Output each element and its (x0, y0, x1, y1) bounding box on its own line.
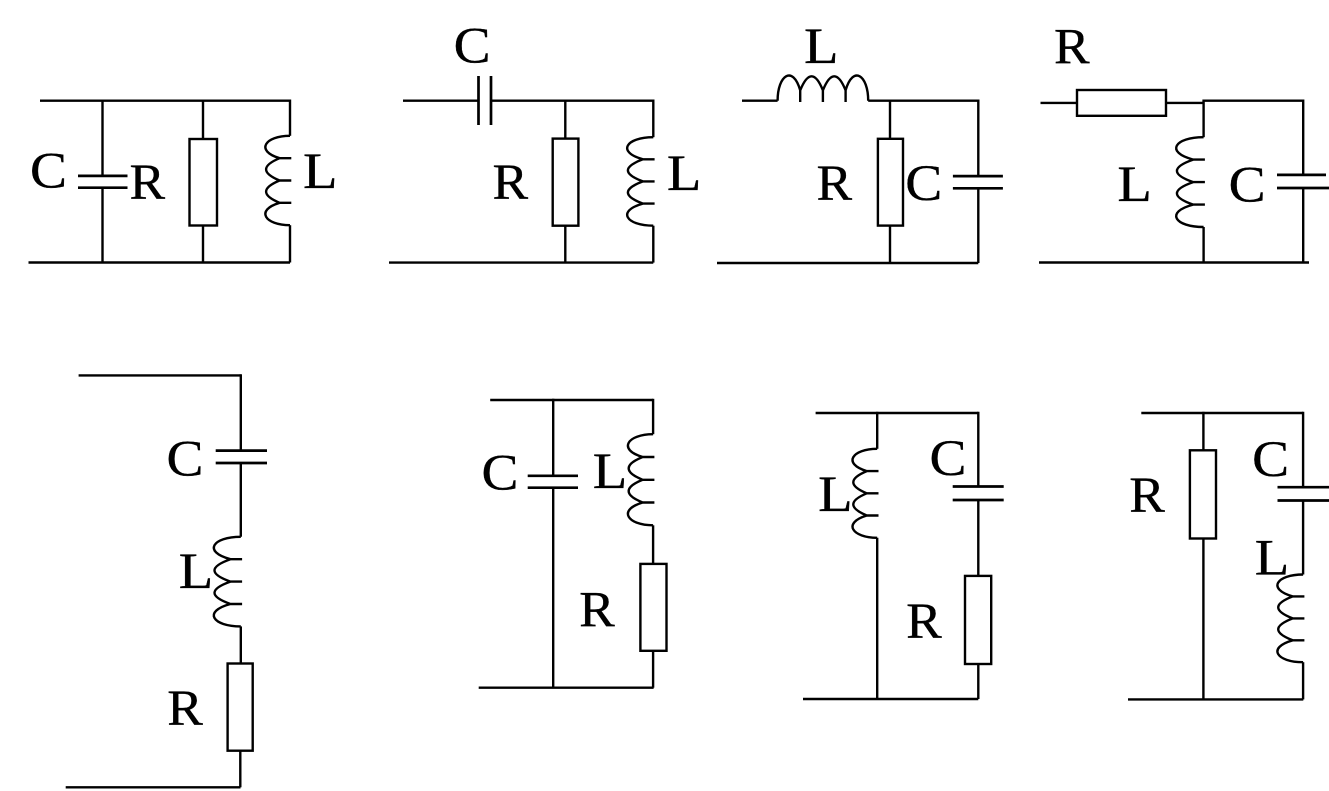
svg-text:C: C (1252, 432, 1289, 488)
svg-text:L: L (818, 467, 853, 523)
resistor R (circuit 2) body (553, 139, 579, 226)
wire: circuit-2 resistor branch lower lead (564, 226, 566, 263)
wire: circuit-6 lead between L and R (652, 525, 654, 565)
wire: circuit-8 bottom rail (1128, 698, 1303, 700)
resistor R (circuit 8) body (1190, 450, 1216, 538)
wire: circuit-2 inductor branch lower lead (652, 226, 654, 263)
wire: circuit-5 upper vertical lead (240, 374, 242, 450)
wire: circuit-6 bottom rail (479, 687, 654, 689)
svg-text:C: C (454, 19, 491, 75)
inductor L (circuit 7) coil (853, 449, 879, 538)
svg-text:R: R (1054, 20, 1090, 76)
wire: circuit-3 resistor branch upper lead (889, 101, 891, 140)
wire: circuit-8 lead between C and L (1302, 501, 1304, 575)
svg-text:L: L (667, 146, 702, 202)
capacitor C (circuit 8) plates (1278, 486, 1329, 489)
wire: circuit-4 inductor branch upper lead (1202, 101, 1204, 138)
resistor R (circuit 6) body (640, 564, 666, 651)
svg-text:L: L (303, 144, 338, 200)
wire: circuit-1 resistor branch upper lead (202, 101, 204, 140)
wire: circuit-8 capacitor branch upper lead (1302, 412, 1304, 487)
wire: circuit-4 left lead (1041, 102, 1079, 104)
wire: circuit-3 top rail (868, 99, 978, 101)
resistor R (circuit 7) body (965, 576, 991, 664)
wire: circuit-7 top rail (816, 412, 979, 414)
resistor R (circuit 1) body (190, 139, 218, 226)
wire: circuit-3 capacitor branch lower lead (977, 188, 979, 263)
svg-text:R: R (1129, 468, 1165, 524)
resistor R (circuit 5) body (228, 664, 253, 751)
wire: circuit-6 capacitor branch lower lead (552, 488, 554, 688)
wire: circuit-8 lower lead (1302, 662, 1304, 699)
wire: circuit-6 right branch upper lead (652, 399, 654, 434)
capacitor C (circuit 5) plates (216, 449, 267, 452)
wire: circuit-1 capacitor branch lower lead (101, 188, 103, 263)
wire: circuit-8 resistor branch lower lead (1202, 539, 1204, 700)
wire: circuit-7 lead between C and R (977, 500, 979, 577)
svg-text:L: L (1255, 531, 1290, 587)
inductor L (circuit 3) coil (778, 76, 869, 102)
wire: circuit-1 inductor branch lower lead (289, 225, 291, 262)
wire: circuit-3 resistor branch lower lead (889, 226, 891, 263)
wire: circuit-3 bottom rail (717, 262, 978, 264)
capacitor C (circuit 2) plates (477, 76, 480, 125)
svg-text:R: R (493, 155, 529, 211)
inductor L (circuit 6) coil (628, 434, 654, 525)
svg-text:C: C (30, 143, 67, 199)
wire: circuit-7 capacitor branch upper lead (977, 412, 979, 487)
capacitor C (circuit 6) plates (528, 474, 578, 477)
wire: circuit-6 top rail (490, 399, 653, 401)
wire: circuit-1 top rail (40, 99, 290, 101)
svg-text:R: R (906, 594, 942, 650)
wire: circuit-6 capacitor branch upper lead (552, 399, 554, 476)
svg-text:L: L (179, 544, 214, 600)
wire: circuit-5 lead between L and R (240, 626, 242, 664)
svg-text:L: L (804, 19, 839, 75)
capacitor C (circuit 3) plates (953, 175, 1003, 178)
wire: circuit-7 inductor branch upper lead (876, 412, 878, 449)
svg-text:R: R (167, 681, 203, 737)
inductor L (circuit 1) coil (265, 136, 291, 225)
wire: circuit-7 bottom rail (803, 698, 978, 700)
wire: circuit-8 resistor branch upper lead (1202, 412, 1204, 452)
wire: circuit-4 bottom rail (1039, 261, 1309, 263)
wire: circuit-4 capacitor branch upper lead (1302, 100, 1304, 175)
svg-text:C: C (930, 431, 967, 487)
wire: circuit-5 top lead (79, 374, 241, 376)
wire: circuit-1 inductor branch upper lead (289, 100, 291, 136)
inductor L (circuit 4) coil (1176, 137, 1205, 227)
capacitor C (circuit 1) plates (78, 175, 128, 178)
wire: circuit-1 capacitor branch upper lead (101, 100, 103, 176)
svg-text:C: C (1229, 158, 1266, 214)
wire: circuit-2 top rail (491, 99, 653, 101)
inductor L (circuit 5) coil (214, 537, 242, 627)
svg-text:R: R (817, 156, 853, 212)
wire: circuit-2 top-left lead (403, 99, 479, 101)
wire: circuit-6 right branch lower lead (652, 651, 654, 688)
wire: circuit-3 top-left lead (742, 99, 778, 101)
svg-text:L: L (1117, 157, 1152, 213)
wire: circuit-5 lower vertical lead (239, 751, 241, 788)
wire: circuit-2 resistor branch upper lead (564, 101, 566, 140)
wire: circuit-4 lead to junction (1166, 102, 1204, 104)
inductor L (circuit 2) coil (627, 137, 654, 226)
wire: circuit-2 bottom rail (389, 261, 653, 263)
svg-text:C: C (167, 432, 204, 488)
inductor L (circuit 8) coil (1277, 575, 1304, 663)
svg-text:R: R (130, 155, 166, 211)
resistor R (circuit 4) body (1077, 90, 1166, 116)
wire: circuit-2 inductor branch upper lead (652, 100, 654, 138)
svg-text:R: R (579, 583, 615, 639)
wire: circuit-7 capacitor branch lower lead (977, 664, 979, 699)
svg-text:C: C (905, 156, 942, 212)
wire: circuit-3 capacitor branch upper lead (977, 100, 979, 177)
wire: circuit-5 lead between C and L (240, 463, 242, 537)
wire: circuit-5 bottom lead (66, 786, 241, 788)
resistor R (circuit 3) body (878, 139, 903, 226)
capacitor C (circuit 4) plates (1277, 174, 1326, 177)
wire: circuit-4 inductor branch lower lead (1202, 227, 1204, 263)
wire: circuit-1 bottom rail (29, 261, 291, 263)
svg-text:L: L (593, 444, 628, 500)
capacitor C (circuit 7) plates (953, 485, 1004, 488)
wire: circuit-4 top rail (1202, 99, 1303, 101)
wire: circuit-7 inductor branch lower lead (876, 538, 878, 699)
wire: circuit-4 capacitor branch lower lead (1302, 188, 1304, 263)
wire: circuit-1 resistor branch lower lead (202, 226, 204, 263)
svg-text:C: C (482, 446, 519, 502)
wire: circuit-8 top rail (1141, 412, 1303, 414)
